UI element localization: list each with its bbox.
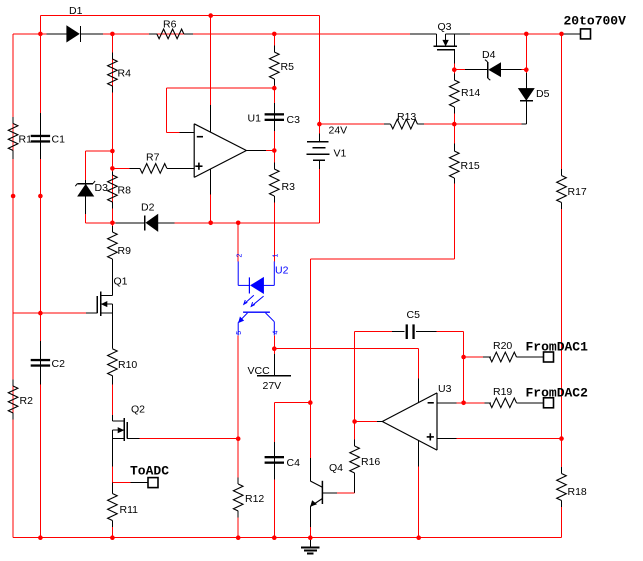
svg-text:R14: R14: [461, 87, 480, 99]
svg-text:R9: R9: [118, 245, 132, 257]
svg-text:4: 4: [272, 331, 279, 335]
svg-text:R11: R11: [120, 504, 139, 516]
svg-text:20to700V: 20to700V: [564, 14, 627, 29]
svg-text:D5: D5: [536, 88, 550, 100]
svg-text:Q4: Q4: [329, 462, 343, 474]
svg-text:R7: R7: [146, 152, 160, 164]
svg-text:R13: R13: [397, 111, 416, 123]
svg-text:R1: R1: [19, 134, 33, 146]
svg-text:R16: R16: [361, 456, 380, 468]
svg-text:D3: D3: [95, 182, 109, 194]
svg-text:FromDAC1: FromDAC1: [526, 340, 589, 355]
svg-text:R6: R6: [163, 19, 177, 31]
svg-text:C3: C3: [287, 114, 301, 126]
svg-text:R4: R4: [118, 68, 132, 80]
svg-text:ToADC: ToADC: [130, 464, 169, 479]
svg-text:C5: C5: [407, 309, 421, 321]
svg-text:R20: R20: [493, 340, 512, 352]
svg-text:C1: C1: [52, 134, 66, 146]
svg-text:D2: D2: [141, 202, 155, 214]
svg-text:VCC: VCC: [248, 365, 271, 377]
svg-text:C2: C2: [52, 358, 66, 370]
svg-text:R15: R15: [461, 160, 480, 172]
svg-text:D1: D1: [69, 5, 83, 17]
svg-text:R18: R18: [568, 486, 587, 498]
svg-text:27V: 27V: [263, 380, 282, 392]
svg-text:R8: R8: [118, 185, 132, 197]
svg-text:D4: D4: [482, 49, 496, 61]
svg-text:R17: R17: [568, 186, 587, 198]
svg-text:2: 2: [237, 254, 244, 258]
svg-text:R10: R10: [118, 359, 137, 371]
svg-text:Q3: Q3: [438, 21, 452, 33]
svg-text:U2: U2: [275, 265, 289, 277]
svg-text:1: 1: [273, 254, 280, 258]
svg-text:V1: V1: [334, 148, 347, 160]
svg-text:Q1: Q1: [114, 276, 128, 288]
svg-text:R19: R19: [493, 386, 512, 398]
svg-text:R3: R3: [282, 181, 296, 193]
svg-text:5: 5: [236, 331, 243, 335]
svg-text:R12: R12: [245, 493, 264, 505]
svg-text:R5: R5: [281, 61, 295, 73]
svg-text:24V: 24V: [329, 125, 348, 137]
svg-text:U3: U3: [438, 383, 452, 395]
svg-text:Q2: Q2: [131, 404, 145, 416]
svg-text:R2: R2: [20, 395, 34, 407]
svg-text:U1: U1: [248, 113, 262, 125]
svg-text:FromDAC2: FromDAC2: [526, 386, 589, 401]
svg-text:C4: C4: [287, 457, 301, 469]
